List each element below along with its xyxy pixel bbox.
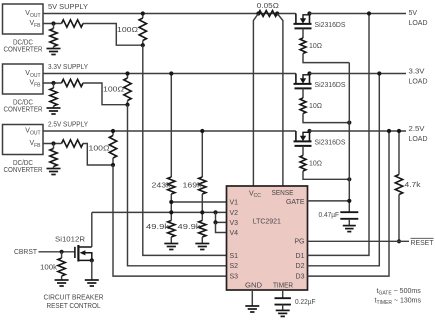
label pin PG — [294, 239, 304, 246]
label 5V LOAD — [409, 10, 428, 27]
label 243k — [152, 183, 172, 190]
label pin V2 — [230, 210, 239, 217]
svg-text:VFB: VFB — [29, 80, 41, 89]
dc/dc converter 1 — [3, 4, 44, 34]
node VFB junction 3 — [51, 141, 55, 145]
label pin V4 — [230, 230, 239, 237]
svg-text:CIRCUIT BREAKER: CIRCUIT BREAKER — [44, 295, 104, 302]
node 100ohm bottom 1 — [141, 43, 145, 47]
label pin D2 — [296, 263, 305, 270]
resistor 49.9k second — [199, 212, 206, 243]
node VFB junction 2 — [51, 81, 55, 85]
svg-text:DC/DC: DC/DC — [13, 99, 33, 106]
label pin SENSE — [272, 190, 294, 197]
resistor 10ohm 1 — [300, 38, 306, 54]
wire 10ohm to gate bus 2 — [303, 114, 349, 123]
label pin V1 — [230, 199, 239, 206]
node mosfet source rail 1 — [307, 11, 311, 15]
svg-text:2.5V: 2.5V — [409, 126, 425, 133]
node GATE junction — [347, 199, 351, 203]
svg-text:VOUT: VOUT — [25, 10, 40, 19]
label RESET CONTROL — [47, 303, 101, 310]
wire VFB to 100ohm bottom 1 — [83, 24, 143, 46]
resistor 10ohm 2 — [300, 98, 306, 114]
svg-text:10Ω: 10Ω — [309, 103, 322, 110]
svg-text:Si1012R: Si1012R — [55, 236, 85, 243]
label 169k — [183, 183, 203, 190]
wire 10ohm to gate bus 3 — [303, 171, 349, 179]
label 49.9k first — [146, 224, 170, 231]
label VOUT pin converter 3 — [25, 128, 40, 137]
svg-text:100Ω: 100Ω — [117, 27, 138, 34]
svg-text:3.3V SUPPLY: 3.3V SUPPLY — [48, 64, 88, 71]
svg-text:2.5V SUPPLY: 2.5V SUPPLY — [48, 122, 88, 129]
label pin D1 — [296, 253, 305, 260]
wire V1 — [171, 201, 226, 203]
label CBRST — [14, 249, 38, 256]
resistor feedback series 1 — [62, 20, 84, 27]
ground feedback 3 — [47, 169, 61, 175]
node 243k top — [169, 71, 173, 75]
label 3.3V LOAD — [409, 69, 428, 86]
wire PG to RESET — [308, 240, 410, 242]
svg-text:Si2316DS: Si2316DS — [315, 140, 346, 147]
svg-text:VFB: VFB — [29, 20, 41, 29]
node D2 rail — [377, 71, 381, 75]
node gate bus 2 — [347, 121, 351, 125]
wire node C to S3 — [113, 165, 227, 276]
label 0.05ohm — [257, 3, 279, 10]
wire gate bus — [348, 63, 350, 213]
wire VFB 1 — [43, 23, 62, 25]
node V2 tap 169k — [200, 210, 204, 214]
wire GATE pin — [308, 200, 350, 202]
node CBRST junction — [60, 250, 64, 254]
resistor 100ohm 3 — [109, 131, 116, 165]
label LTC2921 — [253, 218, 281, 225]
svg-text:GND: GND — [245, 283, 262, 290]
svg-text:CONVERTER: CONVERTER — [4, 47, 43, 54]
label VOUT pin converter 1 — [25, 10, 40, 19]
node D3 rail — [387, 129, 391, 133]
resistor 4.7k — [395, 131, 402, 241]
svg-text:10Ω: 10Ω — [309, 161, 322, 168]
resistor feedback lower 2 — [50, 83, 57, 108]
svg-text:LOAD: LOAD — [409, 136, 428, 143]
svg-text:TIMER: TIMER — [273, 283, 293, 290]
label pin TIMER — [273, 283, 293, 290]
svg-text:RESET CONTROL: RESET CONTROL — [47, 303, 101, 310]
label 100k — [40, 264, 58, 271]
resistor 100ohm 1 — [139, 14, 146, 46]
svg-text:V3: V3 — [230, 220, 239, 227]
wire D3 — [308, 131, 390, 276]
wire VFB 2 — [43, 82, 62, 84]
label 0.22uF — [295, 299, 316, 306]
label tTIMER timing — [375, 298, 422, 307]
label pin S1 — [230, 253, 239, 260]
ground Si1012R source — [85, 280, 99, 286]
svg-text:CONVERTER: CONVERTER — [4, 107, 43, 114]
wire 5V rail left — [43, 13, 296, 15]
ground 49.9k second — [195, 244, 209, 250]
label Si2316DS 2 — [315, 82, 346, 89]
wire V4 — [216, 222, 227, 232]
resistor 243k — [168, 74, 175, 203]
ground feedback 2 — [47, 108, 61, 114]
node V2 tap 243k — [169, 210, 173, 214]
resistor feedback series 2 — [62, 79, 84, 86]
node 100ohm top 2 — [125, 71, 129, 75]
svg-text:D2: D2 — [296, 263, 305, 270]
label pin S3 — [230, 274, 239, 281]
node V2 V3 junction — [213, 210, 217, 214]
svg-text:243k: 243k — [152, 183, 172, 190]
wire gate 2 — [302, 88, 304, 98]
svg-text:100Ω: 100Ω — [89, 145, 110, 152]
resistor 0.05ohm sense — [258, 11, 277, 17]
label 2.5V LOAD — [409, 126, 428, 143]
label 4.7k — [405, 182, 422, 189]
ground GND pin — [245, 306, 259, 312]
label Si2316DS 3 — [315, 140, 346, 147]
svg-text:0.47µF: 0.47µF — [319, 212, 340, 219]
svg-text:tGATE ~ 500ms: tGATE ~ 500ms — [377, 288, 422, 297]
resistor 169k — [199, 131, 206, 212]
svg-text:3.3V: 3.3V — [409, 69, 425, 76]
wire node A to S1 — [143, 45, 227, 255]
svg-text:DC/DC: DC/DC — [13, 160, 33, 167]
label pin GATE — [286, 199, 305, 206]
svg-text:VFB: VFB — [29, 140, 41, 149]
svg-text:LTC2921: LTC2921 — [253, 218, 281, 225]
node 4.7k reset — [397, 239, 401, 243]
resistor feedback series 3 — [62, 140, 84, 147]
label 100ohm 1 — [117, 27, 138, 34]
node 169k top — [200, 129, 204, 133]
label 49.9k second — [178, 224, 202, 231]
wire 0.47uF to ground — [348, 219, 350, 226]
svg-text:10Ω: 10Ω — [309, 43, 322, 50]
label Si2316DS 1 — [315, 22, 346, 29]
svg-text:S1: S1 — [230, 253, 239, 260]
svg-text:GATE: GATE — [286, 199, 305, 206]
wire drain to V2 line — [91, 212, 93, 247]
label pin S2 — [230, 263, 239, 270]
label pin D3 — [296, 274, 305, 281]
svg-text:LOAD: LOAD — [409, 20, 428, 27]
label VOUT pin converter 2 — [25, 70, 40, 79]
dc/dc converter 2 — [3, 64, 44, 94]
label 3.3V SUPPLY — [48, 64, 88, 71]
node 4.7k rail — [397, 129, 401, 133]
label pin V3 — [230, 220, 239, 227]
op-amp U1 LTC2921 body — [227, 186, 308, 290]
node mosfet source rail 2 — [307, 71, 311, 75]
node sense left — [256, 11, 260, 15]
wire TIMER pin — [282, 290, 284, 298]
wire source to ground — [91, 260, 93, 280]
svg-text:0.05Ω: 0.05Ω — [257, 3, 279, 10]
transistor Si2316DS 1 — [294, 14, 312, 29]
node 100ohm bottom 2 — [125, 103, 129, 107]
svg-text:D3: D3 — [296, 274, 305, 281]
wire 10ohm to gate bus 1 — [303, 54, 349, 63]
wire 2.5V rail right — [310, 130, 407, 132]
svg-text:S3: S3 — [230, 274, 239, 281]
svg-text:tTIMER ~ 130ms: tTIMER ~ 130ms — [375, 298, 422, 307]
transistor Si2316DS 2 — [294, 74, 312, 89]
wire GND pin — [251, 290, 253, 306]
wire gate 1 — [302, 28, 304, 38]
svg-text:Si2316DS: Si2316DS — [315, 82, 346, 89]
label DC/DC CONVERTER 1 — [4, 39, 43, 53]
wire gate 3 — [302, 146, 304, 156]
node VFB junction 1 — [51, 21, 55, 25]
capacitor 0.47uF — [340, 212, 358, 219]
transistor Si2316DS 3 — [294, 131, 312, 146]
label 0.47uF — [319, 212, 340, 219]
svg-text:49.9k: 49.9k — [178, 224, 202, 231]
svg-text:PG: PG — [294, 239, 304, 246]
wire VFB to 100ohm bottom 3 — [83, 144, 113, 166]
svg-text:100Ω: 100Ω — [103, 87, 124, 94]
svg-text:RESET: RESET — [411, 240, 435, 247]
label CIRCUIT BREAKER — [44, 295, 104, 302]
label tGATE timing — [377, 288, 422, 297]
wire VFB to 100ohm bottom 2 — [83, 83, 128, 105]
label DC/DC CONVERTER 3 — [4, 160, 43, 174]
wire V3 — [216, 212, 227, 222]
wire 3.3V rail right — [310, 73, 407, 75]
node sense right — [275, 11, 279, 15]
label 2.5V SUPPLY — [48, 122, 88, 129]
svg-text:S2: S2 — [230, 263, 239, 270]
svg-text:V1: V1 — [230, 199, 239, 206]
wire CBRST — [39, 251, 76, 253]
svg-text:0.22µF: 0.22µF — [295, 299, 316, 306]
wire VCC drop — [253, 14, 258, 187]
node gate bus 3 — [347, 177, 351, 181]
ground feedback 1 — [47, 49, 61, 55]
resistor 100k — [58, 252, 65, 280]
resistor 10ohm 3 — [300, 156, 306, 172]
wire D2 — [308, 74, 380, 266]
svg-text:VOUT: VOUT — [25, 128, 40, 137]
node D1 rail — [367, 11, 371, 15]
resistor 100ohm 2 — [124, 74, 131, 105]
wire V2 — [92, 211, 227, 213]
resistor 49.9k first — [168, 202, 175, 244]
node 100ohm top 3 — [111, 129, 115, 133]
node 100ohm top 1 — [141, 11, 145, 15]
label 100ohm 3 — [89, 145, 110, 152]
node V1 tap — [169, 200, 173, 204]
svg-text:D1: D1 — [296, 253, 305, 260]
label DC/DC CONVERTER 2 — [4, 99, 43, 113]
label 10ohm 1 — [309, 43, 322, 50]
wire node B to S2 — [128, 105, 227, 266]
wire D1 — [308, 14, 370, 256]
wire 2.5V rail left — [43, 130, 296, 132]
wire 3.3V rail left — [43, 73, 296, 75]
wire 5V rail right — [310, 13, 407, 15]
ground 0.22uF — [276, 310, 290, 316]
wire VFB 3 — [43, 143, 62, 145]
label 100ohm 2 — [103, 87, 124, 94]
transistor Q1 Si1012R — [75, 245, 92, 262]
label pin GND — [245, 283, 262, 290]
label 10ohm 2 — [309, 103, 322, 110]
node V3 junction — [213, 220, 217, 224]
svg-text:SENSE: SENSE — [272, 190, 294, 197]
node 100ohm bottom 3 — [111, 163, 115, 167]
svg-text:49.9k: 49.9k — [146, 224, 170, 231]
label VFB pin converter 2 — [29, 80, 41, 89]
dc/dc converter 3 — [3, 125, 44, 155]
label Si1012R — [55, 236, 85, 243]
svg-text:100k: 100k — [40, 264, 58, 271]
wire SENSE drop — [277, 14, 283, 187]
ground 100k — [55, 280, 69, 286]
resistor feedback lower 1 — [50, 24, 57, 49]
svg-text:4.7k: 4.7k — [405, 182, 422, 189]
resistor feedback lower 3 — [50, 144, 57, 169]
ground 0.47uF — [343, 226, 356, 232]
capacitor 0.22uF — [275, 298, 291, 304]
node source corner — [90, 258, 94, 262]
label pin VCC — [249, 190, 261, 199]
label RESET — [411, 238, 435, 247]
svg-text:VOUT: VOUT — [25, 70, 40, 79]
label 10ohm 3 — [309, 161, 322, 168]
label VFB pin converter 3 — [29, 140, 41, 149]
node mosfet source rail 3 — [307, 129, 311, 133]
svg-text:5V: 5V — [409, 10, 418, 17]
label 5V SUPPLY — [48, 4, 88, 11]
svg-text:V4: V4 — [230, 230, 239, 237]
wire 0.22uF to ground — [282, 305, 284, 311]
svg-text:DC/DC: DC/DC — [13, 39, 33, 46]
svg-text:169k: 169k — [183, 183, 203, 190]
svg-text:5V SUPPLY: 5V SUPPLY — [48, 4, 88, 11]
svg-text:CBRST: CBRST — [14, 249, 38, 256]
svg-text:LOAD: LOAD — [409, 79, 428, 86]
ground 49.9k first — [164, 244, 178, 250]
svg-text:Si2316DS: Si2316DS — [315, 22, 346, 29]
label VFB pin converter 1 — [29, 20, 41, 29]
svg-text:V2: V2 — [230, 210, 239, 217]
svg-text:CONVERTER: CONVERTER — [4, 167, 43, 174]
